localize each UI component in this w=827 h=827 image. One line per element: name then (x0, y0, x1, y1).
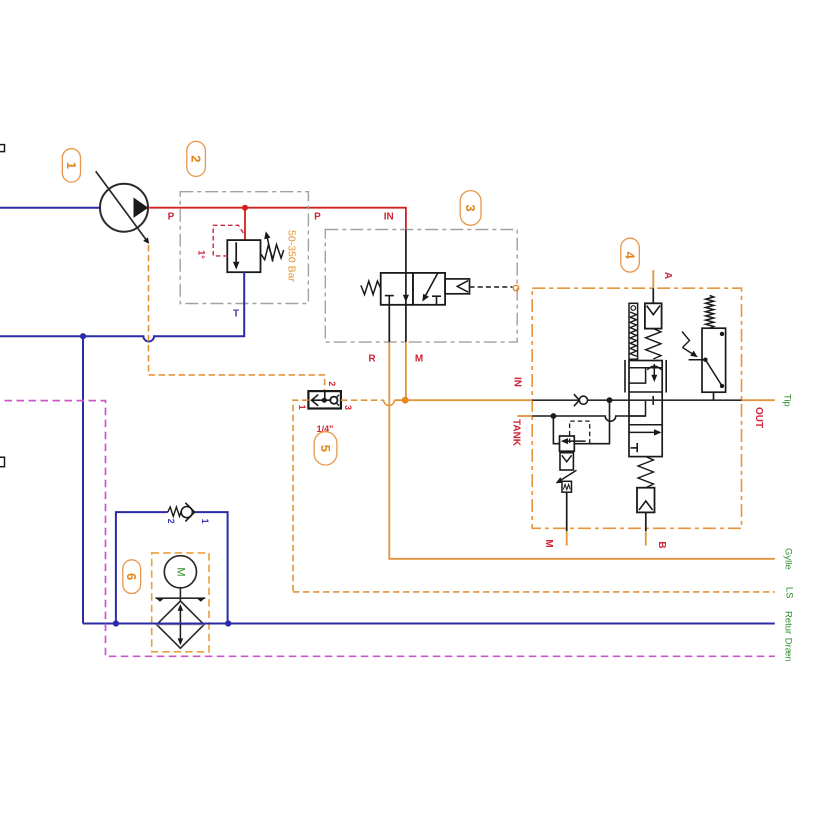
label balloon 2 (187, 141, 206, 176)
svg-text:LS: LS (783, 587, 794, 599)
svg-text:B: B (656, 541, 667, 548)
wire: compensator stub to main line (713, 392, 715, 400)
anti-cavitation check (chevron box) (560, 453, 573, 470)
wire: black R stub inside box (388, 305, 390, 342)
spool section: blocked port stub (652, 396, 654, 405)
bypass check valve ball and seat (181, 503, 194, 522)
node: orange junction M line (402, 397, 409, 404)
pilot connection circle (513, 285, 518, 290)
svg-text:2: 2 (166, 519, 176, 524)
svg-text:1°: 1° (197, 250, 207, 259)
svg-text:1: 1 (200, 519, 210, 524)
check valve B (box with chevron) (637, 488, 655, 513)
node: red junction at P (242, 205, 248, 211)
wire: orange M line down to junction (405, 342, 407, 400)
svg-text:2: 2 (327, 381, 337, 386)
breather cap (156, 588, 206, 602)
wire: blue bypass loop (116, 512, 228, 623)
spring below spool (638, 457, 654, 488)
wire: blue return line (Retur) (83, 623, 775, 625)
wire: orange dashed from coupling port 1 to LS line (293, 400, 308, 592)
svg-text:IN: IN (384, 212, 394, 223)
node: junction main line (607, 397, 613, 403)
relief valve adjust arrow (264, 231, 273, 262)
wire: blue riser to return line (82, 336, 84, 623)
wire: black drop from IN through valve (405, 230, 407, 343)
wire: B line inside box (645, 512, 647, 531)
wire: red drop to relief valve (244, 208, 246, 240)
valve return spring (361, 281, 381, 294)
wire: orange R line down to Gylle (389, 342, 775, 559)
enclosure box component 4 (orange dash-dot) (532, 288, 741, 528)
svg-text:3: 3 (463, 204, 478, 211)
label balloon 4 (621, 238, 640, 272)
wire: tank stub (orange) (517, 415, 532, 417)
pump P1 (component 1) (96, 171, 150, 244)
bypass check valve spring (168, 507, 181, 516)
svg-text:6: 6 (124, 573, 139, 580)
enclosure box component 2 (180, 192, 308, 304)
wire: red pressure line pump to IN corner (148, 208, 406, 230)
shock relief valve body (560, 436, 586, 451)
wire: A port line (orange outside box) (652, 270, 654, 288)
node: blue junction left of filter (113, 620, 119, 626)
svg-text:IN: IN (512, 377, 523, 387)
svg-text:Gylle: Gylle (783, 548, 794, 570)
spool section: upper-left chamber (629, 368, 646, 383)
svg-text:A: A (662, 272, 673, 279)
svg-text:50-350 Bar: 50-350 Bar (286, 230, 298, 282)
wire: B port stub (orange) (645, 531, 647, 546)
test coupling component 5 (308, 391, 341, 408)
compensator adjust arrow (682, 332, 698, 358)
node: blue junction right of filter (225, 620, 231, 626)
main spool valve body (629, 361, 662, 457)
svg-text:2: 2 (189, 155, 204, 162)
wire: orange dashed from coupling port 3 with hop over R (341, 399, 384, 401)
svg-text:5: 5 (318, 445, 333, 452)
wire: M line inside box (566, 492, 568, 531)
shock valve pilot dashed box (570, 421, 590, 443)
cartridge bracket right (665, 360, 667, 393)
wire: blue suction line to pump (0, 207, 100, 209)
svg-text:Retur: Retur (783, 611, 794, 634)
svg-text:T: T (233, 309, 239, 320)
wire: M port stub (orange) (566, 531, 568, 546)
svg-text:R: R (368, 354, 376, 365)
svg-text:TANK: TANK (511, 419, 522, 447)
relief valve V1 body (227, 240, 260, 272)
shock valve spring box (562, 481, 572, 492)
wire: orange line to component 4 IN (394, 399, 532, 401)
pilot line (red dashed) of relief valve (213, 225, 245, 256)
label balloon 3 (460, 191, 481, 226)
svg-text:P: P (314, 212, 321, 223)
relief valve spring (261, 245, 284, 260)
wire: magenta drain line (5, 401, 775, 657)
svg-text:1: 1 (64, 162, 79, 169)
filter diamond (157, 601, 204, 648)
svg-text:3: 3 (343, 405, 353, 410)
pilot dashed line to box edge (470, 286, 513, 288)
spring cartridge (hatched) (629, 303, 638, 359)
wire: blue tank line from relief valve (0, 272, 244, 341)
check ball on main line (574, 394, 588, 406)
filter unit enclosure (orange dashed) (152, 553, 209, 652)
svg-text:M: M (415, 354, 423, 365)
svg-text:Tip: Tip (782, 394, 793, 407)
svg-text:OUT: OUT (753, 407, 764, 428)
wire: LS line to right edge (293, 591, 775, 593)
svg-text:4: 4 (623, 252, 638, 260)
spool section: right flow arrow (629, 429, 662, 435)
check valve A (box with chevron) (645, 303, 662, 328)
svg-text:Dræn: Dræn (783, 638, 794, 662)
solenoid / pilot actuator (445, 279, 469, 294)
spool section: metered flow arrow (647, 364, 661, 382)
valve 3/2 right position square (413, 273, 445, 305)
shock valve adjust arrow (556, 470, 577, 483)
svg-text:M: M (175, 567, 187, 576)
pressure compensator body (689, 328, 726, 392)
wire: drop to shock valve (553, 416, 559, 444)
spool section: bottom blocked stub (631, 443, 638, 452)
wire: tank line inside box with hop (532, 416, 645, 421)
label balloon 6 (123, 560, 141, 594)
motor circle M (164, 556, 196, 588)
compensator spring (706, 296, 714, 329)
wire: main IN-OUT line inside box (532, 399, 741, 401)
connector stub upper left (0, 145, 5, 152)
spring below check valve A (646, 329, 661, 359)
node: junction tank line (551, 413, 557, 419)
cartridge bracket left (624, 360, 626, 393)
connector stub lower left (0, 457, 5, 467)
wire: pilot drop from main line junction (574, 400, 610, 444)
spool section: inner chamber right edge (629, 400, 646, 416)
label balloon 5 (314, 432, 337, 465)
enclosure box component 3 (325, 230, 517, 343)
svg-text:P: P (168, 212, 175, 223)
svg-text:1: 1 (297, 405, 307, 410)
valve 3/2 left position square (381, 273, 413, 305)
node: blue junction on tank line (80, 333, 86, 339)
wire: orange dashed pump control (LS) line (149, 245, 325, 391)
wire: A line inside box (652, 288, 654, 303)
wire: orange OUT line to Tip (742, 399, 775, 401)
svg-text:M: M (543, 539, 554, 547)
label balloon 1 (62, 149, 80, 182)
